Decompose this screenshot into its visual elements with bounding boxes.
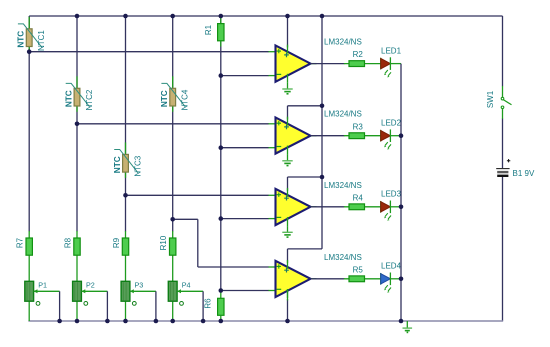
wire: R6 top stub [220,291,222,299]
wire: inverting input of U3 from reference chain [221,218,269,220]
wire: non-inverting input of U4 [198,266,269,268]
svg-text:SW1: SW1 [486,90,495,108]
svg-text:R1: R1 [204,24,213,35]
wire: reference chain vertical R1 to R6 [220,16,222,291]
junction NTC2 divider tap [75,122,80,127]
resistor R2 [349,61,365,67]
ground below U2 [282,161,292,166]
svg-text:R3: R3 [353,122,364,131]
svg-text:R5: R5 [353,265,364,274]
potentiometer P1 [25,281,60,305]
junction reference chain at U3 -input [219,216,224,221]
LED3 [381,201,391,221]
wire: R7 top pin stub [28,231,30,238]
svg-text:R10: R10 [159,235,168,250]
junction bottom rail x=156 [154,319,159,324]
svg-text:NTC1: NTC1 [37,30,46,51]
resistor R10 [170,238,176,255]
wire: output to R3 and LED2 (green) [344,135,381,137]
wire: bottom ground rail [28,320,503,322]
junction bottom rail x=60 [57,319,62,324]
thermistor NTC1 [18,17,42,53]
junction bottom rail x=126 [123,319,128,324]
wire: R6 bottom stub to ground rail [220,315,222,321]
wire: P1 bottom pin to ground rail [28,301,30,321]
LED4 [381,273,391,293]
svg-text:P4: P4 [182,280,191,289]
junction bottom rail x=173 [170,319,175,324]
wire: U4 V+ pin to V+ rail [287,249,289,263]
wire: NTC4 tap to corner (op-amp U4 +input route) [173,218,198,220]
wire: U2 V- pin down [287,155,289,161]
wire: NTC3 column from top rail to divider tap [125,16,127,195]
svg-text:R8: R8 [63,237,72,248]
wire: inverting input of U4 from reference chain [221,290,269,292]
wire: V+ rail corner to op-amp 4 power pin [288,248,323,250]
op-amp U2 (LM324/NS) [276,117,317,155]
wire: LED3 cathode to LED rail [390,206,401,208]
wire: +input pin stub U4 [269,266,277,268]
wire: P2 wiper drop to ground rail [106,291,108,321]
junction bottom rail x=107 [105,319,110,324]
svg-text:NTC: NTC [160,90,169,107]
junction V+ rail at U2 [320,104,325,109]
svg-text:LED1: LED1 [381,46,402,55]
thermistor NTC2 [66,76,90,112]
svg-text:R2: R2 [353,50,364,59]
wire: non-inverting input of U2 [77,123,269,125]
wire: U3 output [311,206,345,208]
junction on top rail x=322.0 [320,14,325,19]
wire: LED1 cathode to LED rail [390,63,401,65]
svg-text:LED4: LED4 [381,262,402,271]
junction bottom rail x=288 [285,319,290,324]
wire: U3 V+ pin to V+ rail [287,177,289,191]
potentiometer P2 [73,281,108,305]
resistor R3 [349,133,365,139]
wire: +input pin stub U3 [269,194,277,196]
junction on top rail x=220.8 [219,14,224,19]
junction NTC3 divider tap [123,193,128,198]
svg-text:LED3: LED3 [381,190,402,199]
svg-text:NTC: NTC [113,156,122,173]
wire: LED cathode rail down to ground rail [400,64,402,321]
wire: U4 output [311,278,345,280]
junction reference chain at U1 -input [219,73,224,78]
wire: V+ rail for op-amps 2-4 [321,16,323,249]
resistor R6 [218,298,224,315]
junction on top rail x=77.0 [75,14,80,19]
junction bottom rail x=401 [399,319,404,324]
potentiometer P4 [168,281,203,305]
wire: NTC3 column tap down to R9 [125,195,127,231]
svg-text:NTC2: NTC2 [85,89,94,110]
wire: P4 wiper drop to ground rail [202,291,204,321]
wire: +input pin stub U1 [269,51,277,53]
wire: -input pin stub U4 [269,290,277,292]
wire: R8 top pin stub [76,231,78,238]
svg-text:LM324/NS: LM324/NS [324,110,362,119]
thermistor NTC3 [114,142,138,178]
wire: NTC4 column from top rail to divider tap [172,16,174,219]
wire: inverting input of U1 from reference chain [221,75,269,77]
resistor R7 [26,238,32,255]
wire: NTC1 column from top rail to divider tap [28,16,30,52]
wire: top power rail [29,15,502,17]
wire: NTC2 column from top rail to divider tap [76,16,78,124]
wire: U2 output [311,135,345,137]
svg-text:B1 9V: B1 9V [513,169,535,178]
wire: R9 top pin stub [125,231,127,238]
wire: U3 V- pin down [287,226,289,232]
svg-text:NTC: NTC [64,90,73,107]
wire: NTC1 column tap down to R7 [28,52,30,232]
junction bottom rail x=221 [219,319,224,324]
svg-text:NTC4: NTC4 [181,89,190,110]
wire: output to R2 and LED1 (green) [344,63,381,65]
svg-text:LM324/NS: LM324/NS [324,38,362,47]
svg-text:R9: R9 [112,237,121,248]
ground symbol on bottom rail [403,321,413,332]
svg-text:R7: R7 [16,237,25,248]
wire: R10 top pin stub [172,231,174,238]
wire: output to R5 and LED4 (green) [344,278,381,280]
resistor R4 [349,204,365,210]
wire: U1 V- pin down [287,83,289,89]
junction on top rail x=287.5 [285,14,290,19]
wire: -input pin stub U2 [269,147,277,149]
wire: U4 V- pin to ground rail [287,299,289,321]
svg-text:P2: P2 [86,280,95,289]
junction on top rail x=125.5 [123,14,128,19]
ground below U3 [282,232,292,237]
svg-text:P3: P3 [135,280,144,289]
resistor R5 [349,276,365,282]
junction bottom rail x=77 [75,319,80,324]
svg-text:LED2: LED2 [381,119,402,128]
wire: -input pin stub U3 [269,218,277,220]
wire: -input pin stub U1 [269,75,277,77]
junction LED rail at LED4 [399,277,404,282]
svg-text:LM324/NS: LM324/NS [324,253,362,262]
svg-text:R4: R4 [353,193,364,202]
wire: LED4 cathode to LED rail [390,278,401,280]
thermistor NTC4 [161,76,185,112]
op-amp U1 (LM324/NS) [276,45,317,83]
wire: LED2 cathode to LED rail [390,135,401,137]
wire: R1 top stub from rail [220,16,222,24]
wire: non-inverting input of U1 [29,51,269,53]
junction reference chain at U2 -input [219,145,224,150]
wire: P4 bottom pin to ground rail [172,301,174,321]
wire: R8 to P2 link [76,255,78,281]
svg-text:P1: P1 [38,280,47,289]
op-amp U4 (LM324/NS) [276,260,317,298]
battery B1 9V [496,159,510,176]
junction V+ rail at U3 [320,175,325,180]
wire: NTC2 column tap down to R8 [76,124,78,232]
wire: P2 bottom pin to ground rail [76,301,78,321]
junction bottom rail x=203 [201,319,206,324]
wire: P3 bottom pin to ground rail [125,301,127,321]
wire: inverting input of U2 from reference chain [221,147,269,149]
junction NTC4 divider tap [170,217,175,222]
LED2 [381,129,391,149]
svg-text:LM324/NS: LM324/NS [324,181,362,190]
junction LED rail at LED3 [399,205,404,210]
junction reference chain at U4 -input [219,288,224,293]
wire: switch SW1 to battery B1 [502,119,504,169]
wire: U1 V+ pin to top rail [287,16,289,48]
wire: R1 bottom stub [220,41,222,47]
svg-text:R6: R6 [204,298,213,309]
op-amp U3 (LM324/NS) [276,188,317,226]
wire: right rail from top rail down to switch SW1 [502,16,504,86]
junction LED rail at LED2 [399,133,404,138]
wire: +input pin stub U2 [269,123,277,125]
wire: NTC4 column tap down to R10 [172,219,174,231]
wire: R9 to P3 link [125,255,127,281]
wire: R7 to P1 link [28,255,30,281]
resistor R8 [74,238,80,255]
wire: R10 to P4 link [172,255,174,281]
ground below U1 [282,89,292,94]
wire: battery B1 to bottom ground rail [502,177,504,321]
junction NTC1 divider tap [27,49,32,54]
wire: non-inverting input of U3 [126,194,269,196]
wire: U1 output [311,63,345,65]
svg-text:NTC3: NTC3 [134,155,143,176]
switch SW1 [501,86,511,119]
wire: P3 wiper drop to ground rail [155,291,157,321]
wire: output to R4 and LED3 (green) [344,206,381,208]
wire: P1 wiper drop to ground rail [59,291,61,321]
svg-text:NTC: NTC [17,31,26,48]
LED1 [381,57,391,77]
resistor R1 [218,24,224,41]
junction on top rail x=172.7 [170,14,175,19]
potentiometer P3 [121,281,156,305]
resistor R9 [122,238,128,255]
wire: corner down [197,219,199,267]
wire: U2 V+ pin to V+ rail [287,106,289,120]
